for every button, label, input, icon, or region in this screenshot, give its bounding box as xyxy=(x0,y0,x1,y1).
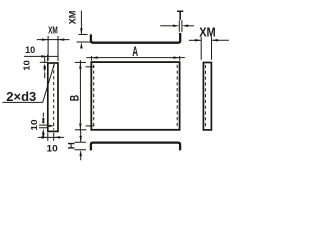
bend line dashed left xyxy=(93,65,95,128)
right side view rectangle xyxy=(203,63,211,130)
dim 10 bottom-horizontal - extensions xyxy=(48,133,54,141)
dim XM top-right - dim line right xyxy=(212,39,229,41)
dim A - left arrow xyxy=(92,56,98,59)
dim H - shafts xyxy=(80,132,82,161)
dim H - arrow up xyxy=(79,150,82,156)
dim T - dim line right part with arrow xyxy=(187,25,194,27)
svg-text:XM: XM xyxy=(48,25,58,37)
dim XM vertical - extension tick bottom xyxy=(77,41,92,43)
svg-text:10: 10 xyxy=(29,119,39,131)
dim 10 bottom-vertical - arrow up (upper pair) xyxy=(42,117,45,123)
dim T (thickness, top right) - extension lines xyxy=(179,20,182,32)
dim 10 top-horizontal - dim line xyxy=(24,55,58,57)
dim A - extension lines xyxy=(92,56,180,61)
dim B - arrow up xyxy=(79,62,82,68)
dim XM top-right - dim line left xyxy=(189,39,201,41)
dim XM top-right - extension lines xyxy=(201,37,211,60)
dim 10 top-horizontal - arrow xyxy=(41,55,47,58)
left view hidden hole line (dashed) xyxy=(53,65,55,130)
top view profile (bent sheet, lips up) xyxy=(91,33,180,43)
svg-text:XM: XM xyxy=(199,25,216,39)
dim 10 top-vertical - shaft xyxy=(44,57,46,79)
left side view rectangle xyxy=(48,63,58,131)
leader underline xyxy=(3,101,43,103)
dim H - arrow down xyxy=(79,136,82,142)
dim B - arrow down xyxy=(79,124,82,130)
dim 10 bottom-vertical - arrow down (below) xyxy=(42,133,45,139)
dim B - dimension line xyxy=(79,60,81,132)
svg-text:B: B xyxy=(68,95,82,102)
dim A - right arrow xyxy=(173,56,179,59)
svg-text:10: 10 xyxy=(47,143,58,153)
svg-text:XM: XM xyxy=(68,11,78,25)
right view hidden line (dashed) xyxy=(204,65,206,128)
svg-text:10: 10 xyxy=(22,60,32,71)
hole centerline tick bottom xyxy=(86,125,95,127)
dim 10 bottom-vertical - shafts xyxy=(42,113,44,117)
dim XM vertical - arrow down xyxy=(80,28,83,34)
main front view rectangle xyxy=(91,62,179,130)
dim 10 bottom-horizontal - arrow left xyxy=(54,136,60,139)
hole pointer arrow (bottom hole) xyxy=(49,125,55,128)
dim 10 bottom-vertical - arrow down (upper pair) xyxy=(42,118,45,124)
dim 10 top-vertical - arrow up xyxy=(43,63,46,69)
dim H - ticks xyxy=(75,142,87,150)
dim A - dimension line xyxy=(86,57,185,59)
dim 10 top-vertical - arrow down xyxy=(43,66,46,72)
dim 10 bottom-vertical - ticks xyxy=(39,125,47,128)
leader line from 2xd3 xyxy=(43,64,55,103)
dim 10 bottom-horizontal - arrow right xyxy=(41,136,47,139)
svg-text:H: H xyxy=(66,142,76,149)
dim XM vertical - arrow up below xyxy=(80,42,83,48)
dim B - bottom tick xyxy=(75,129,87,131)
bend line dashed right xyxy=(176,65,178,128)
hole centerline tick top xyxy=(86,66,95,68)
dim XM top-left - left arrow xyxy=(42,38,48,41)
dim 10 top-vertical - tick xyxy=(40,61,48,63)
dim 10 bottom-horizontal - dim line xyxy=(38,136,64,138)
svg-text:2×d3: 2×d3 xyxy=(6,89,36,104)
dim XM vertical (left of top view) - extension tick top xyxy=(79,34,88,36)
dim B - top tick xyxy=(75,61,86,63)
dim XM vertical - line above xyxy=(80,11,82,35)
dim XM top-left - extension lines xyxy=(48,36,58,61)
dim XM top-right - right arrow xyxy=(212,39,218,42)
bottom view profile (bent sheet, lips down) xyxy=(91,143,180,151)
dim 10 top-horizontal - extension xyxy=(47,54,49,61)
dim XM top-left - dimension line xyxy=(37,39,70,41)
dim XM top-left - right arrow xyxy=(58,38,64,41)
dim 10 bottom-vertical - arrow up (below) xyxy=(42,128,45,134)
svg-text:10: 10 xyxy=(25,45,35,55)
dim XM top-right - left arrow xyxy=(195,39,201,42)
svg-text:A: A xyxy=(132,44,138,59)
dim T - dim line left part with arrow xyxy=(160,25,174,27)
svg-text:T: T xyxy=(177,8,184,23)
